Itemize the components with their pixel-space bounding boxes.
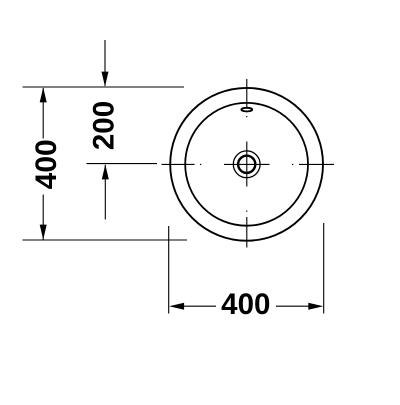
left 400 arrow down [40,225,47,240]
svg-text:200: 200 [87,101,120,150]
200 arrow down [102,72,109,87]
left 400 arrow up [40,87,47,102]
top extension line [23,86,185,88]
200 arrow up [102,164,109,179]
bottom 400 dimension line [184,305,309,307]
basin inner bowl circle [185,103,308,226]
bottom 400 left extension line [168,226,170,314]
drain inner circle [238,156,255,173]
svg-text:400: 400 [221,288,270,321]
drain outer circle [233,151,260,178]
bottom extension line [23,239,188,241]
bottom 400 arrow left [169,303,184,310]
horizontal centerline [162,163,335,165]
tap hole ellipse [241,108,252,112]
200 center tick line [87,163,158,165]
vertical centerline [246,79,248,248]
basin outer rim circle [170,88,323,241]
bottom 400 right extension line [323,223,325,314]
200 dimension lower line [104,165,106,220]
200 dimension upper line [104,40,106,86]
left 400 dimension line [42,88,44,240]
svg-text:400: 400 [30,139,63,189]
bottom 400 arrow right [308,303,323,310]
